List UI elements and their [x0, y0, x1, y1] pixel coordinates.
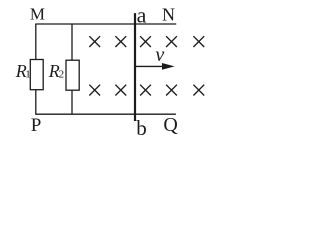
- svg-text:P: P: [31, 115, 42, 136]
- svg-text:v: v: [155, 44, 164, 66]
- svg-text:b: b: [136, 116, 147, 139]
- svg-text:N: N: [162, 5, 175, 25]
- svg-text:1: 1: [25, 68, 31, 80]
- svg-text:a: a: [137, 2, 147, 27]
- svg-text:Q: Q: [163, 114, 178, 136]
- svg-text:2: 2: [59, 68, 65, 80]
- svg-text:M: M: [30, 4, 45, 23]
